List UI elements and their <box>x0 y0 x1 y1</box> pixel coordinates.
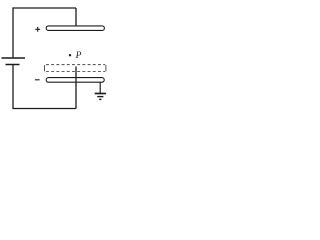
wire bottom rail <box>12 108 76 110</box>
wire top plate lead <box>75 8 77 26</box>
ground symbol <box>95 93 106 95</box>
label + (top plate polarity) <box>35 27 40 32</box>
battery B1 negative plate (short line) <box>6 64 20 66</box>
wire ground stem <box>99 82 101 93</box>
svg-text:P: P <box>75 51 82 61</box>
wire bottom plate lead (through slab and plate) <box>75 66 77 108</box>
wire left rail upper <box>12 7 14 58</box>
node P dot <box>69 54 71 56</box>
label − (bottom plate polarity) <box>35 79 40 81</box>
capacitor top plate (+) <box>46 26 104 31</box>
capacitor bottom plate (−) <box>46 78 104 83</box>
wire left rail lower <box>12 65 14 109</box>
wire top rail <box>13 7 76 9</box>
battery B1 positive plate (long line) <box>2 57 26 59</box>
dielectric slab outline (dashed) <box>44 65 46 71</box>
